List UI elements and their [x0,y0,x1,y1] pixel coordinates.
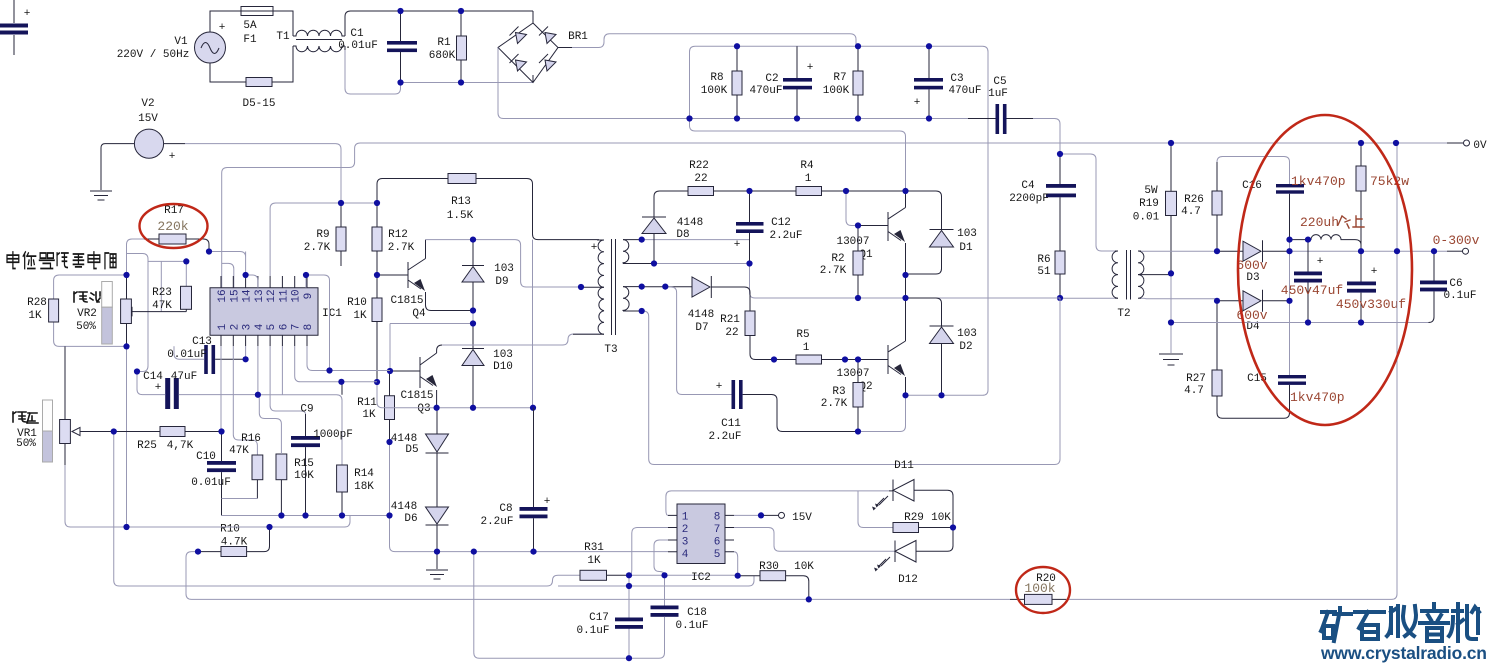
wire T3 sec2 bottom down to R6 return [642,298,1060,465]
svg-text:220k: 220k [157,219,188,234]
svg-text:+: + [544,496,551,508]
svg-text:1: 1 [217,323,229,330]
resistor 75k2w [1356,143,1409,251]
wire VR1 wiper down to comparator bus A [114,432,533,587]
svg-text:3: 3 [242,324,254,331]
svg-text:D10: D10 [493,361,513,373]
svg-text:7: 7 [291,324,303,331]
diode D2 103 [906,298,977,395]
wire IC2 pin5 to R30 [734,552,738,576]
wire BR1 bottom vertex to bottom bus [532,75,534,83]
voltage source V2 15V [105,98,185,163]
svg-text:0.01uF: 0.01uF [338,40,378,52]
capacitor C1 0.01uF [338,11,417,83]
wire pin14/13 to R17 node [209,252,258,288]
rectifier D5-15 [242,78,275,111]
wire y=131 from R8 loop to Q1 collector node [695,131,906,191]
svg-text:R17: R17 [164,205,184,217]
capacitor C2 470uF [749,46,813,118]
svg-text:22: 22 [725,327,738,339]
wire pin5 down to C9 [270,346,305,416]
svg-text:D5-15: D5-15 [242,98,275,110]
capacitor 450v330uf [1336,251,1406,322]
svg-text:450v330uf: 450v330uf [1336,297,1406,312]
wire IC2 pin7 to D12 [734,528,895,552]
15V terminal [761,512,812,524]
capacitor C6 0.1uF [1420,251,1477,322]
svg-text:4,7K: 4,7K [167,440,194,452]
svg-text:R23: R23 [152,287,172,299]
svg-text:0.1uF: 0.1uF [1443,290,1476,302]
resistor R30 10K [738,561,815,599]
svg-text:R25: R25 [137,440,157,452]
svg-text:C1815: C1815 [400,390,433,402]
svg-text:14: 14 [242,289,254,303]
svg-text:D11: D11 [894,460,914,472]
voltage source V1 220V/50Hz [117,22,226,63]
svg-text:1K: 1K [362,409,376,421]
LED D11 [872,460,953,528]
junction dots input section [397,8,403,14]
sense bus C y=599.4 with R20 [809,598,1010,600]
label 调流 VR2 50% [74,292,100,333]
svg-text:C2: C2 [765,73,778,85]
svg-text:IC2: IC2 [691,572,711,584]
wire loop around R8 region (left vertical + top bus y=46) [690,46,989,395]
svg-text:50%: 50% [76,321,96,333]
svg-text:470uF: 470uF [749,85,782,97]
svg-text:15V: 15V [792,512,812,524]
svg-text:4148: 4148 [688,309,714,321]
svg-text:+: + [716,381,723,393]
svg-text:V2: V2 [141,98,154,110]
svg-text:R14: R14 [354,468,374,480]
label 电位器调整电阻 [7,252,116,268]
svg-text:R19: R19 [1139,198,1159,210]
wire pin10/9 junction [306,275,330,371]
svg-text:0.01: 0.01 [1133,212,1160,224]
svg-text:470uF: 470uF [948,85,981,97]
svg-text:R10: R10 [220,524,240,536]
svg-text:C17: C17 [589,612,609,624]
svg-text:D8: D8 [676,229,689,241]
svg-text:13: 13 [254,289,266,302]
svg-text:0V: 0V [1473,140,1487,152]
svg-text:R21: R21 [720,314,740,326]
ground bus y=551.6 to IC2 pin4 [437,551,668,553]
wire Q4 collector rail y=239.6 to T3 tap [426,240,582,287]
capacitor C8 2.2uF [480,408,550,552]
svg-text:8: 8 [714,512,721,524]
capacitor C16 1kv470p [1242,174,1346,240]
wire fuse to T1 [210,11,293,82]
resistor R23 47K [140,286,192,312]
wire bus y=527 [128,516,351,528]
emitter bus y=298 (Q1) [858,297,1060,299]
svg-text:C1815: C1815 [390,295,423,307]
vertical bus through C16/D3/D4/C15 [1289,240,1291,375]
diode D9 103 [462,240,514,311]
svg-text:C8: C8 [499,503,512,515]
inductor 220uh [1290,235,1362,252]
svg-text:3: 3 [682,537,689,549]
junction dots R8 bus [686,115,692,121]
svg-text:C4: C4 [1021,180,1035,192]
resistor R7 100K [823,46,863,118]
svg-text:2.2uF: 2.2uF [480,516,513,528]
svg-text:1kv470p: 1kv470p [1291,174,1346,189]
resistor R9 2.7K [304,203,346,266]
capacitor C17 0.1uF [576,612,643,637]
svg-text:C6: C6 [1449,278,1462,290]
resistor R27 4.7 [1184,301,1289,418]
ground (V2) [90,191,112,200]
svg-text:47uF: 47uF [171,371,197,383]
junction dots left section [206,248,212,254]
svg-text:1uF: 1uF [988,88,1008,100]
svg-text:0.1uF: 0.1uF [576,625,609,637]
0-300v terminal [1433,233,1480,254]
top bus y=11 [401,10,534,12]
resistor R20 100k (circled) [1024,573,1056,604]
bottom bus y=322.5 [1171,322,1429,324]
ground (D6) [426,552,448,579]
svg-text:2: 2 [229,324,241,331]
svg-text:13007: 13007 [836,236,869,248]
wire V1 top to fuse [210,11,241,32]
wire R11 bottom through D5/D6 region [390,442,438,552]
resistor R28 1K [27,275,126,346]
svg-text:100k: 100k [1024,581,1055,596]
svg-text:22: 22 [694,173,707,185]
wire pin1 down to C10/R25 node [220,346,222,432]
wire Q4 emitter rail [390,311,473,372]
capacitor C12 2.2uF [734,191,803,264]
svg-text:51: 51 [1037,266,1051,278]
svg-text:4: 4 [254,323,266,330]
red ellipse annotation R17 [140,204,208,248]
ground (output) [1159,354,1183,365]
wire R19 line down to bottom bus and ground [1170,273,1172,353]
svg-text:R27: R27 [1186,373,1206,385]
wire bus A jog to R31 [533,575,580,586]
wire Q3 collector to T3 primary bottom [442,334,604,345]
svg-text:600v: 600v [1236,258,1267,273]
svg-text:1K: 1K [28,310,42,322]
svg-text:7: 7 [714,524,721,536]
IC1 body [210,288,342,336]
svg-text:1: 1 [803,342,810,354]
wire D5-15 to T1 bottom [272,46,293,82]
svg-text:6: 6 [714,537,721,549]
LED D12 [874,528,953,587]
wire T2 primary bottom to half-bridge mid bus [1060,297,1115,299]
transistor Q2 13007 [836,298,905,395]
svg-text:4148: 4148 [391,501,417,513]
svg-text:0.1uF: 0.1uF [675,620,708,632]
IC1 top pin stubs [221,276,307,288]
svg-text:8: 8 [303,324,315,331]
capacitor C5 1uF [968,76,1033,134]
capacitor C14 47uF [137,371,342,465]
svg-text:6: 6 [278,324,290,331]
svg-text:T3: T3 [604,344,617,356]
wire box C10/R16 bottom loop [222,499,390,516]
R3 bottom bus to Q2 emitter [858,395,906,431]
svg-text:D5: D5 [405,444,418,456]
resistor R10 1K [347,275,382,382]
resistor R8 100K [701,46,742,118]
resistor R2 2.7K [820,226,863,299]
resistor R10 4.7K (lower) [198,524,270,557]
svg-text:47K: 47K [152,300,172,312]
svg-text:10: 10 [291,289,303,302]
wire pin8 to Q3 base rail y=370.5 [307,346,390,371]
svg-text:9: 9 [303,293,315,300]
svg-text:2.7K: 2.7K [820,265,847,277]
wire R10 left down to bus C [186,552,809,600]
wire pin2 down to R16 [233,346,257,455]
label 220uh以上 [1300,215,1364,230]
svg-text:VR2: VR2 [77,308,97,320]
svg-text:1.5K: 1.5K [447,210,474,222]
transistor Q1 13007 [836,191,905,275]
wire R9/R12 top rail y=203 to IC1 pin12 [270,203,377,276]
svg-text:R12: R12 [388,229,408,241]
capacitor C10 0.01uF [191,432,236,516]
svg-text:+: + [219,22,226,34]
transformer T3 [573,239,653,356]
wire T2 center tap to R19 line [1141,274,1171,276]
resistor R13 1.5K [377,174,599,408]
svg-text:10K: 10K [931,512,951,524]
wire T3 sec1 bottom to D8 anode and C12 [653,263,750,265]
svg-text:15V: 15V [138,113,158,125]
svg-text:C3: C3 [950,73,963,85]
svg-text:+: + [914,97,921,109]
branch 0V line down to IC1 pin16/15 [222,143,1447,288]
wire y=575.3 rail to R30 [665,574,738,576]
svg-text:D12: D12 [898,574,918,586]
svg-text:103: 103 [493,349,513,361]
potentiometer VR1 wiper arrow [80,431,114,433]
svg-text:+: + [155,382,162,394]
svg-text:2.7K: 2.7K [304,242,331,254]
wire Q1 emitter [905,275,907,298]
svg-text:103: 103 [957,328,977,340]
svg-text:47K: 47K [229,445,249,457]
resistor R19 0.01 5W [1133,143,1177,273]
svg-text:C10: C10 [196,451,216,463]
svg-text:5W: 5W [1144,185,1158,197]
svg-text:R3: R3 [832,386,845,398]
svg-text:+: + [24,8,31,20]
diode D5 4148 [391,408,449,507]
svg-text:1K: 1K [587,555,601,567]
diode D1 103 [906,191,977,274]
output rail 0-300v y=251.2 [1290,250,1448,252]
wire IC2 pin8 to 15V [734,514,761,516]
capacitor C13 0.01uF [167,336,245,374]
bottom bus y=82.5 [401,82,534,84]
svg-text:R26: R26 [1184,194,1204,206]
resistor R1 680K [429,11,467,83]
resistor R26 4.7 [1181,162,1222,251]
Q2 emitter bus to x=988 vertical [906,394,983,396]
svg-text:R9: R9 [316,229,329,241]
svg-text:1K: 1K [353,310,367,322]
capacitor C18 0.1uF [629,575,709,658]
svg-text:C5: C5 [993,76,1006,88]
resistor R17 220k (circled) [127,205,210,275]
capacitor 450v47uf [1281,240,1343,323]
svg-text:F1: F1 [243,34,257,46]
svg-text:0.01uF: 0.01uF [167,349,207,361]
svg-text:T1: T1 [276,31,290,43]
svg-text:D7: D7 [695,322,708,334]
resistor R4 1 [750,160,906,196]
resistor R14 18K [337,382,375,516]
svg-text:C9: C9 [300,404,313,416]
svg-text:0.01uF: 0.01uF [191,477,231,489]
svg-text:C18: C18 [687,607,707,619]
svg-text:1kv470p: 1kv470p [1290,390,1345,405]
potentiometer VR2 body [121,275,132,346]
IC2 pin stubs [668,515,734,551]
svg-text:R4: R4 [800,160,814,172]
wire IC2 pin2 to R31 node [629,528,668,576]
svg-text:R6: R6 [1037,254,1050,266]
capacitor C9 1000pF [291,404,353,516]
capacitor C3 470uF [914,46,982,118]
svg-text:16: 16 [217,289,229,302]
resistor R29 10K [893,512,953,533]
wire T2 secondary top to D3 node [1141,250,1217,252]
junction dots bottom section [434,549,440,555]
svg-text:T2: T2 [1117,308,1130,320]
svg-text:1000pF: 1000pF [313,429,353,441]
svg-text:2.2uF: 2.2uF [769,230,802,242]
svg-text:D2: D2 [959,341,972,353]
svg-text:IC1: IC1 [322,308,342,320]
wire BR1 left vertex down to lower bus [498,48,690,119]
svg-text:2.2uF: 2.2uF [708,431,741,443]
svg-text:4148: 4148 [677,217,703,229]
svg-text:R29: R29 [904,512,924,524]
transistor Q3 C1815 [390,345,442,415]
wire T1 bottom around to bottom bus [344,46,346,50]
svg-text:R2: R2 [831,253,844,265]
svg-text:4.7: 4.7 [1181,206,1201,218]
junction dots driver section [374,200,380,206]
svg-text:0-300v: 0-300v [1433,233,1480,248]
svg-text:5: 5 [266,324,278,331]
resistor R5 1 [774,329,858,364]
svg-text:Q4: Q4 [412,308,426,320]
svg-text:R13: R13 [451,196,471,208]
resistor R22 22 [688,160,750,196]
svg-text:220uh: 220uh [1300,215,1339,230]
svg-text:BR1: BR1 [568,31,588,43]
svg-text:5A: 5A [243,20,257,32]
svg-text:220V / 50Hz: 220V / 50Hz [117,49,190,61]
diode D4 600v [1217,290,1290,333]
svg-text:4: 4 [682,549,689,561]
svg-text:C11: C11 [721,418,741,430]
svg-text:4.7: 4.7 [1184,385,1204,397]
svg-text:10K: 10K [294,470,314,482]
wire VR2/R23 node [127,254,187,372]
wire pin6 down to C14 wire [281,346,283,395]
wire C12 bottom to emitter bus y=298 [750,264,859,299]
diode D7 4148 [642,276,750,334]
wire C4 node to T2 primary top [1060,154,1115,251]
svg-text:R5: R5 [796,329,809,341]
svg-text:2.7K: 2.7K [388,242,415,254]
0V terminal [1447,140,1487,152]
bridge rectifier BR1 [498,23,588,83]
svg-text:5: 5 [714,549,721,561]
capacitor C11 2.2uF [708,380,858,443]
slider graphic VR2 [102,282,113,345]
wire pin7 to R14/R10 rail y=381.8 [295,346,377,382]
svg-text:R8: R8 [710,72,723,84]
svg-text:www.crystalradio.cn: www.crystalradio.cn [1320,643,1487,663]
wire pin4 down to C14 node [257,346,259,395]
svg-text:C13: C13 [192,336,212,348]
svg-text:R16: R16 [241,433,261,445]
wire T1 top to C1/top bus [344,33,346,36]
svg-text:R30: R30 [759,561,779,573]
svg-text:R28: R28 [27,297,47,309]
slider graphic VR1 [43,400,53,462]
label 调压 VR1 50% [13,412,38,450]
wire pin3 down to C13 [245,346,247,359]
svg-text:11: 11 [278,289,290,303]
svg-text:50%: 50% [16,438,36,450]
fuse F1 5A [241,7,273,47]
resistor R3 2.7K [821,360,863,432]
wire T3 sec1 top rail to C12 [642,239,750,241]
svg-text:100K: 100K [701,85,728,97]
resistor R31 1K [580,542,629,580]
svg-text:450v47uf: 450v47uf [1281,283,1343,298]
svg-text:R1: R1 [437,37,451,49]
svg-text:D6: D6 [404,513,417,525]
potentiometer VR1 body [60,346,128,527]
long vertical x=126.5 down to bus [126,346,128,527]
diode D3 600v [1217,240,1290,284]
svg-text:4.7K: 4.7K [221,537,248,549]
diode D10 103 [462,324,513,408]
svg-text:103: 103 [494,263,514,275]
svg-text:+: + [1371,266,1378,278]
svg-text:D9: D9 [495,276,508,288]
transformer T2 [1112,250,1144,320]
svg-text:12: 12 [266,289,278,302]
svg-text:15: 15 [229,289,241,302]
red circle annotation R20 [1016,567,1070,613]
resistor R12 2.7K [372,203,415,275]
wire BR1 right vertex to R8 bus [558,47,572,49]
transistor Q4 C1815 [377,240,473,320]
wire bus A east segment to R30 [558,576,754,586]
svg-text:680K: 680K [429,50,456,62]
wire BR1 top vertex to top bus [532,11,534,23]
svg-text:D1: D1 [959,242,973,254]
lower bus y=118.5 [690,118,997,120]
svg-text:1: 1 [682,512,689,524]
